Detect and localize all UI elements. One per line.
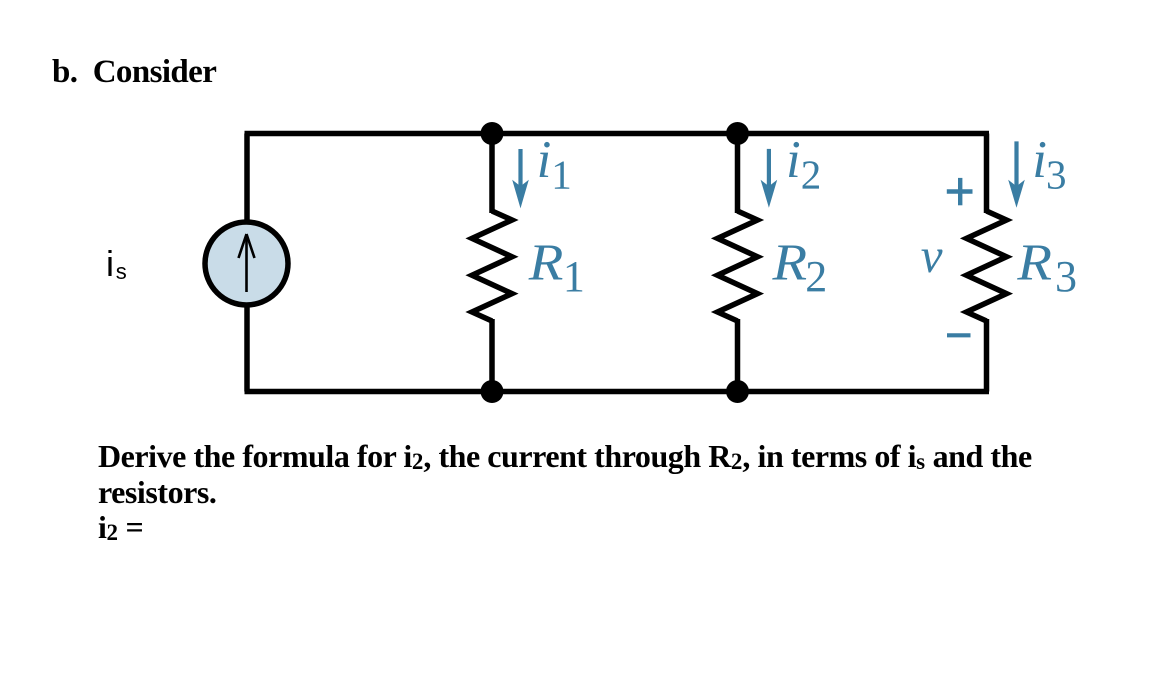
svg-text:R: R	[528, 234, 564, 291]
wire left	[244, 134, 250, 392]
junction node top of R1	[481, 122, 504, 145]
label v	[921, 228, 943, 283]
wire right bottom segment	[984, 319, 990, 392]
label R1	[528, 234, 585, 301]
svg-text:3: 3	[1055, 252, 1077, 301]
wire stub above R2	[735, 134, 741, 214]
svg-text:R: R	[1016, 234, 1052, 291]
svg-text:2: 2	[805, 252, 827, 301]
plus sign	[947, 178, 973, 205]
svg-text:i: i	[1032, 131, 1047, 189]
svg-text:R: R	[771, 234, 807, 291]
heading "b. Consider"	[52, 54, 216, 91]
wire stub above R1	[489, 134, 495, 214]
label is	[106, 243, 127, 284]
current source is	[205, 222, 288, 305]
minus sign	[947, 333, 971, 337]
junction node top of R2	[726, 122, 749, 145]
svg-text:3: 3	[1046, 152, 1067, 198]
svg-text:i: i	[537, 131, 552, 189]
svg-text:1: 1	[563, 252, 585, 301]
wire stub below R2	[735, 319, 741, 392]
svg-text:i: i	[786, 131, 801, 189]
resistor R2	[718, 211, 758, 321]
svg-text:v: v	[921, 228, 943, 283]
wire bottom	[245, 389, 990, 395]
svg-text:s: s	[116, 259, 127, 284]
junction node bottom of R2	[726, 380, 749, 403]
question paragraph	[98, 439, 1032, 545]
wire top	[245, 131, 990, 137]
label i1	[537, 131, 572, 198]
current arrow i3	[1008, 141, 1025, 207]
current arrow i1	[512, 149, 529, 208]
resistor R3	[967, 211, 1007, 321]
label R3	[1016, 234, 1077, 301]
current arrow i2	[761, 149, 778, 208]
resistor R1	[472, 211, 512, 321]
label i2	[786, 131, 821, 198]
label i3	[1032, 131, 1066, 198]
label R2	[771, 234, 827, 301]
svg-text:1: 1	[551, 152, 572, 198]
wire stub below R1	[489, 319, 495, 392]
svg-text:i: i	[106, 243, 114, 284]
svg-text:2: 2	[801, 152, 822, 198]
junction node bottom of R1	[481, 380, 504, 403]
wire right top segment	[984, 134, 990, 214]
